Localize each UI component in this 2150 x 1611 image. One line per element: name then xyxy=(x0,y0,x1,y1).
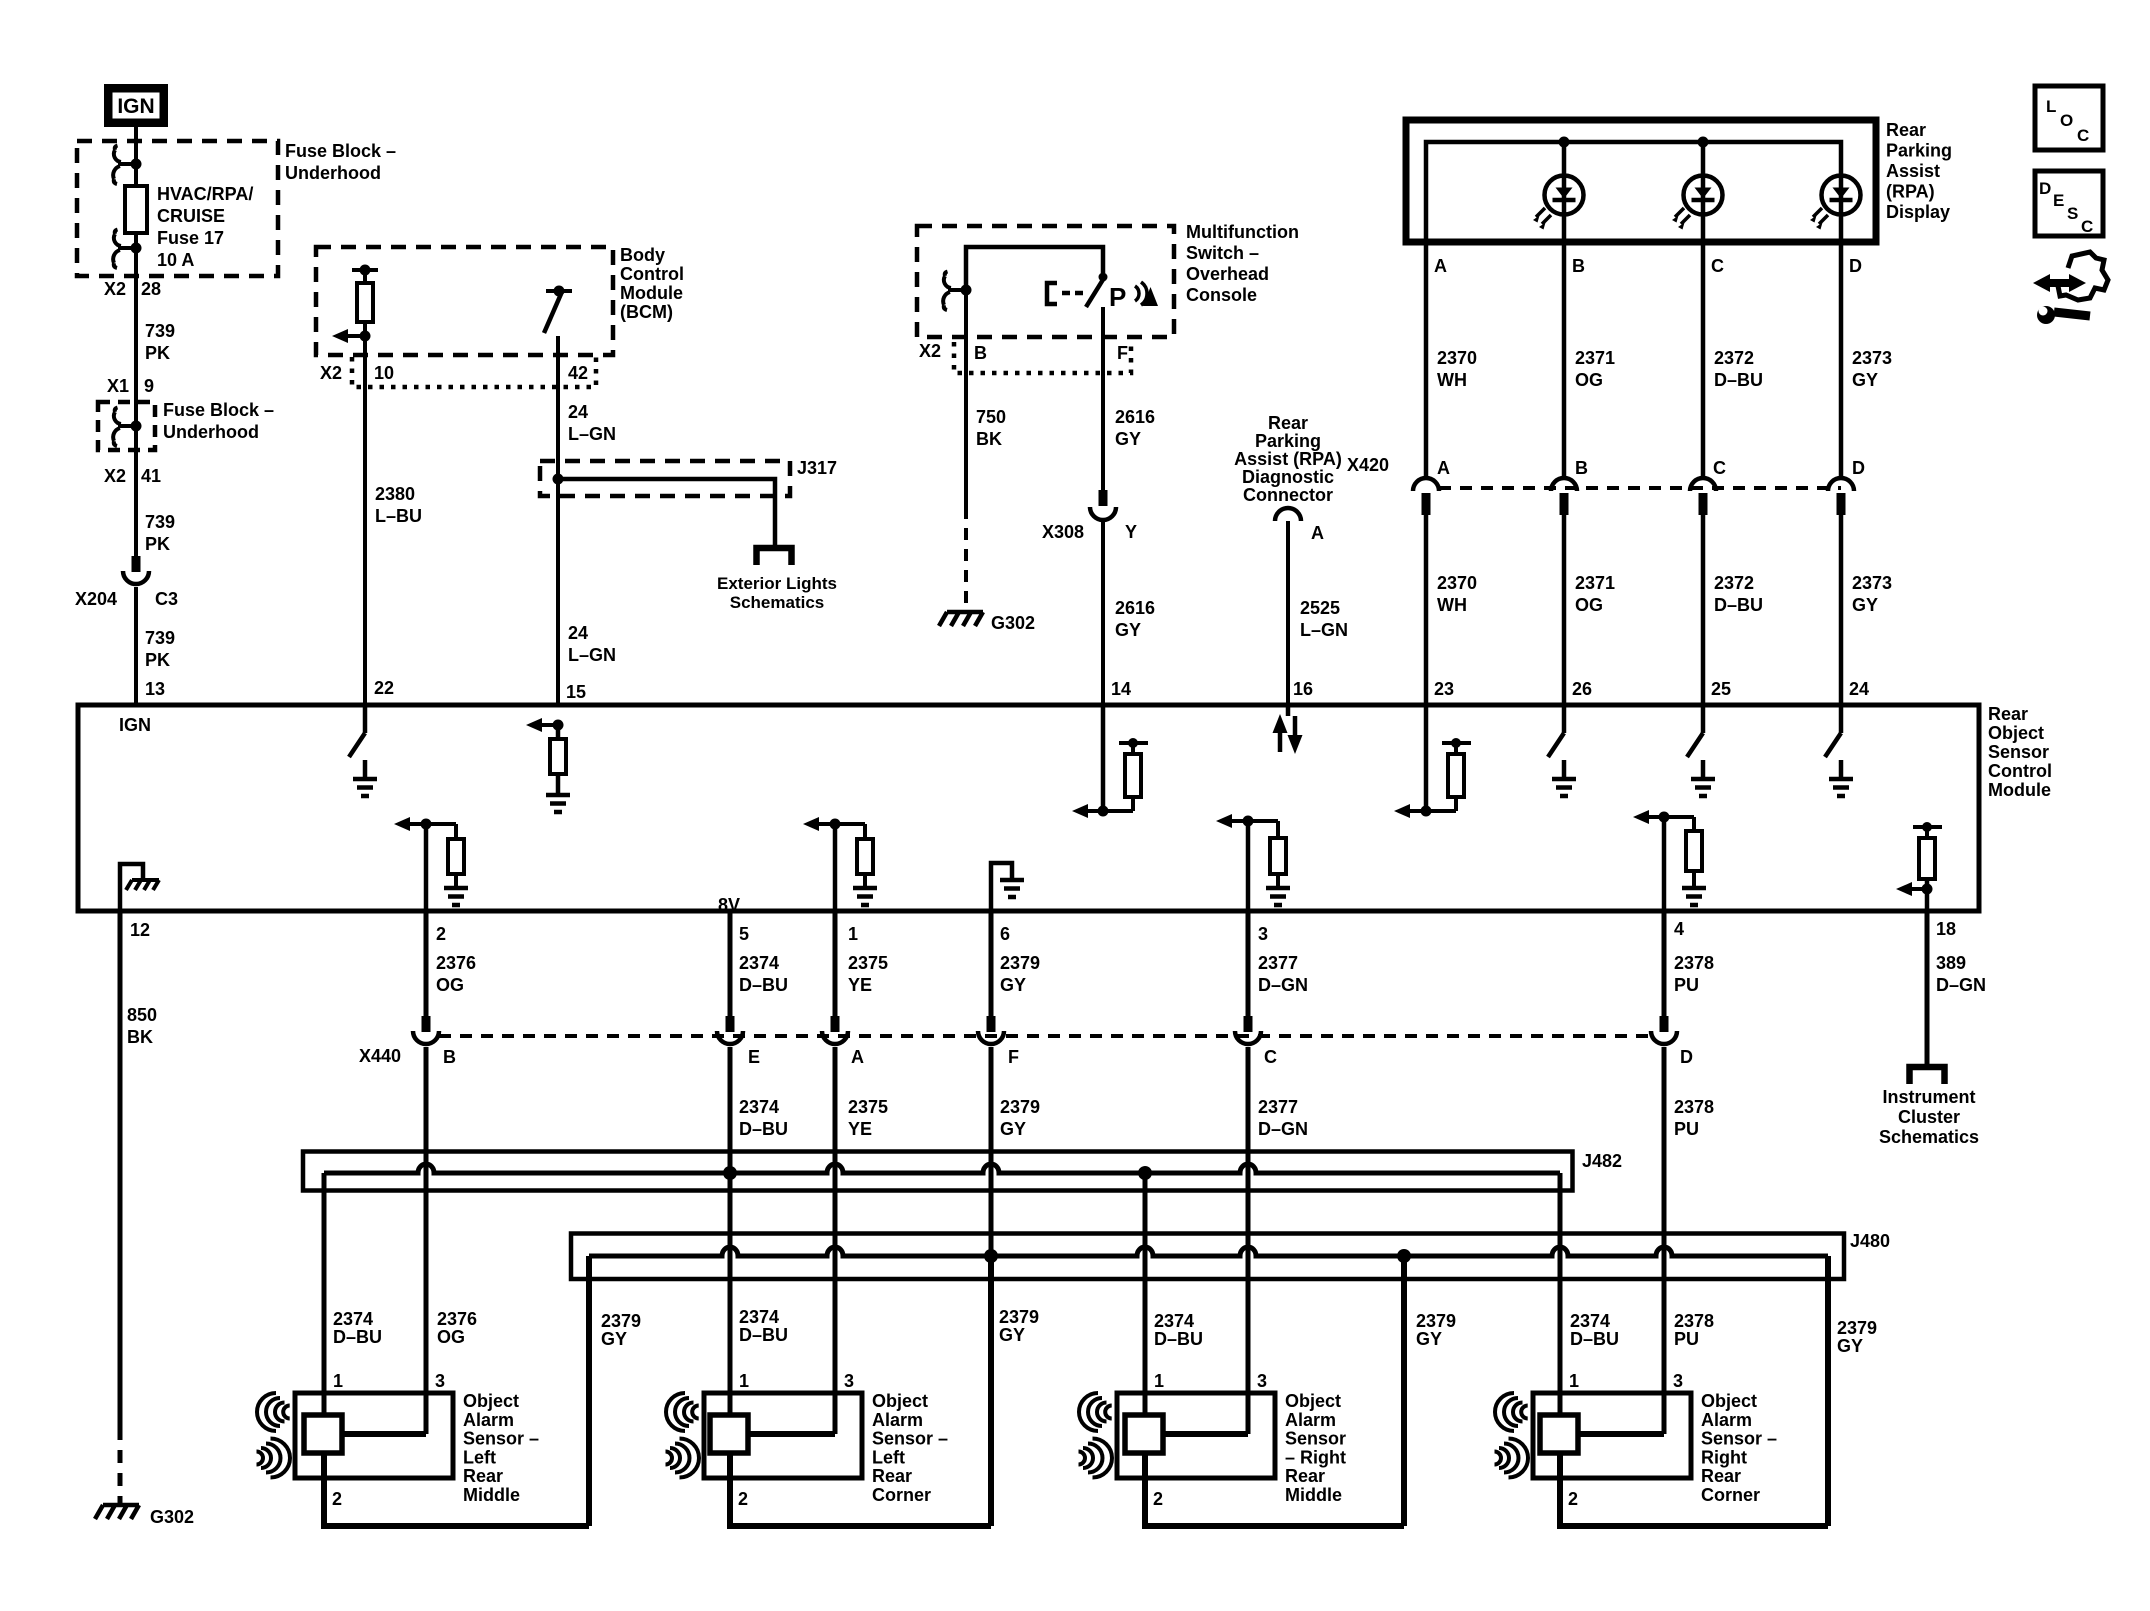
svg-text:1: 1 xyxy=(739,1371,749,1391)
contact hook lower xyxy=(113,230,136,269)
svg-text:Diagnostic: Diagnostic xyxy=(1242,467,1334,487)
svg-text:Switch –: Switch – xyxy=(1186,243,1259,263)
svg-text:2525: 2525 xyxy=(1300,598,1340,618)
svg-text:Underhood: Underhood xyxy=(285,163,381,183)
wire 2379 GY below J480 xyxy=(988,1256,994,1526)
wire J482 to sensor 1 pin 1 xyxy=(322,1173,327,1416)
sensor 4 sound waves lower xyxy=(1495,1439,1529,1478)
J480 bus wire xyxy=(589,1247,1828,1256)
svg-text:X440: X440 xyxy=(359,1046,401,1066)
module internal resistor arrow pin 2 xyxy=(394,817,410,831)
sensor 1 transducer square xyxy=(304,1415,342,1453)
svg-text:X2: X2 xyxy=(104,466,126,486)
wire pin 12 to G302 xyxy=(118,911,123,1427)
svg-text:23: 23 xyxy=(1434,679,1454,699)
svg-text:Parking: Parking xyxy=(1255,431,1321,451)
rear parking assist display box xyxy=(1406,120,1876,242)
svg-text:25: 25 xyxy=(1711,679,1731,699)
wire 2378 PU X440 to sensor 4 pin 3 xyxy=(1662,1047,1667,1434)
svg-text:Object: Object xyxy=(872,1391,928,1411)
svg-text:D: D xyxy=(1852,458,1865,478)
svg-text:Object: Object xyxy=(1988,723,2044,743)
svg-text:2373: 2373 xyxy=(1852,348,1892,368)
svg-text:Right: Right xyxy=(1701,1447,1747,1467)
svg-text:GY: GY xyxy=(1000,1119,1026,1139)
svg-text:2370: 2370 xyxy=(1437,348,1477,368)
svg-text:3: 3 xyxy=(435,1371,445,1391)
connector X420 A xyxy=(1413,478,1439,491)
svg-text:PU: PU xyxy=(1674,1329,1699,1349)
svg-text:Module: Module xyxy=(620,283,683,303)
contact hook fuse block 2 xyxy=(113,408,136,447)
BCM X2 connector dotted row xyxy=(352,357,596,387)
svg-text:2379: 2379 xyxy=(1837,1318,1877,1338)
module internal resistor arrow pin 23 xyxy=(1424,705,1429,811)
module internal ground pin 12 xyxy=(120,864,143,911)
connector X420 B xyxy=(1551,478,1577,491)
J480 junction dot 2379 wire xyxy=(984,1249,998,1263)
wire BCM pin 10 to module pin 22 xyxy=(363,336,367,705)
connector X420 C xyxy=(1690,478,1716,491)
svg-text:Fuse Block –: Fuse Block – xyxy=(285,141,396,161)
contact hook upper xyxy=(113,146,136,185)
svg-text:2376: 2376 xyxy=(436,953,476,973)
svg-text:GY: GY xyxy=(601,1329,627,1349)
svg-text:B: B xyxy=(974,343,987,363)
svg-text:Sensor –: Sensor – xyxy=(1701,1429,1777,1449)
svg-text:3: 3 xyxy=(1257,1371,1267,1391)
svg-text:D–BU: D–BU xyxy=(1154,1329,1203,1349)
svg-text:D–GN: D–GN xyxy=(1258,1119,1308,1139)
svg-text:6: 6 xyxy=(1000,924,1010,944)
svg-text:C: C xyxy=(1713,458,1726,478)
sensor 3 sound waves lower xyxy=(1079,1439,1113,1478)
icon arrows and wrench xyxy=(2033,252,2108,324)
icon DESC button xyxy=(2035,171,2103,236)
svg-text:2377: 2377 xyxy=(1258,1097,1298,1117)
svg-text:WH: WH xyxy=(1437,595,1467,615)
svg-text:Sensor –: Sensor – xyxy=(872,1429,948,1449)
svg-text:750: 750 xyxy=(976,407,1006,427)
svg-text:2371: 2371 xyxy=(1575,348,1615,368)
svg-text:CRUISE: CRUISE xyxy=(157,206,225,226)
svg-text:1: 1 xyxy=(333,1371,343,1391)
svg-text:OG: OG xyxy=(1575,595,1603,615)
wire F to X308 xyxy=(1101,307,1105,492)
svg-text:Control: Control xyxy=(620,264,684,284)
svg-text:2616: 2616 xyxy=(1115,598,1155,618)
connector X204 C3 xyxy=(123,556,149,584)
svg-text:L–GN: L–GN xyxy=(1300,620,1348,640)
svg-text:C: C xyxy=(1711,256,1724,276)
power symbol IGN xyxy=(104,84,168,127)
svg-text:2616: 2616 xyxy=(1115,407,1155,427)
wire J480 right to sensor 4 pin 2 riser xyxy=(1825,1256,1831,1526)
svg-text:739: 739 xyxy=(145,628,175,648)
svg-text:Fuse Block –: Fuse Block – xyxy=(163,400,274,420)
wire 2376 OG X440 to sensor 1 pin 3 xyxy=(424,1047,429,1434)
connector X420 D xyxy=(1828,478,1854,491)
display bus wire xyxy=(1426,142,1841,242)
svg-text:Rear: Rear xyxy=(1988,704,2028,724)
svg-text:Corner: Corner xyxy=(872,1485,931,1505)
LED indicator C xyxy=(1672,176,1723,230)
svg-text:2377: 2377 xyxy=(1258,953,1298,973)
svg-text:GY: GY xyxy=(1000,975,1026,995)
svg-text:Display: Display xyxy=(1886,202,1950,222)
svg-text:Connector: Connector xyxy=(1243,485,1333,505)
wires X420 to module xyxy=(1424,514,1429,705)
svg-text:2370: 2370 xyxy=(1437,573,1477,593)
svg-text:2372: 2372 xyxy=(1714,348,1754,368)
svg-text:3: 3 xyxy=(844,1371,854,1391)
svg-text:Body: Body xyxy=(620,245,665,265)
svg-text:10 A: 10 A xyxy=(157,250,194,270)
svg-text:D–BU: D–BU xyxy=(739,1325,788,1345)
wire 2375 YE X440 to sensor 2 pin 3 xyxy=(833,1047,838,1434)
svg-text:E: E xyxy=(748,1047,760,1067)
ground G302 top xyxy=(939,612,983,626)
svg-text:D–GN: D–GN xyxy=(1936,975,1986,995)
svg-text:F: F xyxy=(1117,343,1128,363)
svg-text:Multifunction: Multifunction xyxy=(1186,222,1299,242)
wire BCM pin 42 to J317 xyxy=(556,336,560,479)
svg-text:Middle: Middle xyxy=(1285,1485,1342,1505)
wires display to X420 xyxy=(1424,242,1429,479)
module internal switch pin 24 xyxy=(1839,705,1844,733)
wire fuse to X204 xyxy=(134,233,138,558)
wire B to ground xyxy=(964,290,968,507)
svg-text:2374: 2374 xyxy=(739,953,779,973)
wire X204 to module pin 13 xyxy=(134,587,138,705)
wire X308 to module pin 14 xyxy=(1101,521,1105,705)
connector X440 E xyxy=(726,1016,735,1032)
connector row X420 dashed xyxy=(1439,486,1841,490)
wire J480 left to sensor 1 pin 2 riser xyxy=(586,1256,592,1526)
sensor 1 sound waves upper xyxy=(257,1393,290,1431)
svg-text:Cluster: Cluster xyxy=(1898,1107,1960,1127)
svg-text:41: 41 xyxy=(141,466,161,486)
svg-text:3: 3 xyxy=(1673,1371,1683,1391)
svg-text:– Right: – Right xyxy=(1285,1447,1346,1467)
connector X440 F xyxy=(987,1016,996,1032)
svg-text:C: C xyxy=(1264,1047,1277,1067)
BCM resistor xyxy=(352,268,378,272)
sensor 2 internal link xyxy=(748,1431,835,1437)
junction block J482 box xyxy=(303,1152,1573,1191)
svg-text:C: C xyxy=(2077,126,2089,145)
J482 junction dot pin5 wire xyxy=(723,1166,737,1180)
sensor 3 transducer square xyxy=(1125,1415,1163,1453)
svg-text:BK: BK xyxy=(976,429,1002,449)
svg-text:D–BU: D–BU xyxy=(739,975,788,995)
sensor 1 sound waves lower xyxy=(257,1439,291,1478)
svg-text:16: 16 xyxy=(1293,679,1313,699)
wires module pins to X440 xyxy=(424,911,429,1017)
svg-text:X420: X420 xyxy=(1347,455,1389,475)
svg-text:S: S xyxy=(2067,204,2078,223)
sensor 2 sound waves upper xyxy=(666,1393,699,1431)
wire IGN to fuse xyxy=(134,127,138,188)
sensor 4 internal link xyxy=(1578,1431,1664,1437)
svg-text:WH: WH xyxy=(1437,370,1467,390)
svg-text:GY: GY xyxy=(1115,429,1141,449)
ground G302 bottom xyxy=(95,1505,139,1519)
wire 2374 D-BU X440 to sensor 2 pin 1 xyxy=(728,1047,733,1416)
icon LOC button xyxy=(2035,86,2103,150)
svg-text:Rear: Rear xyxy=(1701,1466,1741,1486)
svg-text:OG: OG xyxy=(436,975,464,995)
junction block J480 box xyxy=(571,1234,1844,1280)
module internal switch pin 26 xyxy=(1562,705,1567,733)
svg-text:GY: GY xyxy=(1852,370,1878,390)
svg-text:2: 2 xyxy=(332,1489,342,1509)
svg-text:Overhead: Overhead xyxy=(1186,264,1269,284)
svg-text:Fuse 17: Fuse 17 xyxy=(157,228,224,248)
svg-text:2374: 2374 xyxy=(333,1309,373,1329)
svg-text:1: 1 xyxy=(1569,1371,1579,1391)
module internal ground pin 6 xyxy=(991,863,1012,911)
svg-text:D–GN: D–GN xyxy=(1258,975,1308,995)
svg-text:X204: X204 xyxy=(75,589,117,609)
svg-text:2: 2 xyxy=(1568,1489,1578,1509)
multifunction X2 connector dotted row xyxy=(954,342,1131,373)
splice pack J317 dashed box xyxy=(540,461,790,496)
svg-text:(RPA): (RPA) xyxy=(1886,182,1935,202)
svg-text:18: 18 xyxy=(1936,919,1956,939)
wire 2377 D-GN X440 to sensor 3 pin 3 xyxy=(1246,1047,1251,1434)
svg-text:9: 9 xyxy=(144,376,154,396)
fuse F17 HVAC/RPA/CRUISE xyxy=(125,186,147,233)
svg-text:X2: X2 xyxy=(320,363,342,383)
svg-text:2374: 2374 xyxy=(739,1307,779,1327)
sensor 3 sound waves upper xyxy=(1079,1393,1112,1431)
svg-text:Middle: Middle xyxy=(463,1485,520,1505)
svg-text:2375: 2375 xyxy=(848,1097,888,1117)
svg-text:B: B xyxy=(1572,256,1585,276)
svg-text:2379: 2379 xyxy=(1000,953,1040,973)
svg-text:Left: Left xyxy=(463,1447,496,1467)
svg-text:D–BU: D–BU xyxy=(1714,595,1763,615)
svg-text:YE: YE xyxy=(848,975,872,995)
svg-text:C: C xyxy=(2081,217,2093,236)
svg-text:Schematics: Schematics xyxy=(730,593,825,612)
contact hook B xyxy=(943,272,966,311)
svg-text:G302: G302 xyxy=(991,613,1035,633)
svg-text:5: 5 xyxy=(739,924,749,944)
svg-text:Module: Module xyxy=(1988,780,2051,800)
svg-text:2376: 2376 xyxy=(437,1309,477,1329)
svg-text:GY: GY xyxy=(1852,595,1878,615)
svg-text:850: 850 xyxy=(127,1005,157,1025)
svg-text:O: O xyxy=(2060,111,2073,130)
svg-text:Schematics: Schematics xyxy=(1879,1127,1979,1147)
svg-text:C3: C3 xyxy=(155,589,178,609)
connector RPA diag A xyxy=(1275,508,1301,521)
svg-text:GY: GY xyxy=(999,1325,1025,1345)
svg-text:2: 2 xyxy=(436,924,446,944)
svg-text:2379: 2379 xyxy=(1416,1311,1456,1331)
svg-text:F: F xyxy=(1008,1047,1019,1067)
switch symbol E and P xyxy=(1047,283,1057,304)
wire RPA diag to module pin 16 xyxy=(1286,521,1290,705)
svg-text:Parking: Parking xyxy=(1886,141,1952,161)
svg-text:B: B xyxy=(443,1047,456,1067)
svg-text:L–GN: L–GN xyxy=(568,645,616,665)
svg-text:D–BU: D–BU xyxy=(333,1327,382,1347)
wire J480 to sensor 3 pin 2 riser xyxy=(1401,1256,1407,1526)
module internal resistor pin 15 xyxy=(553,720,564,731)
svg-text:24: 24 xyxy=(1849,679,1869,699)
module internal switch pin 25 xyxy=(1701,705,1706,733)
svg-text:A: A xyxy=(1311,523,1324,543)
svg-text:OG: OG xyxy=(437,1327,465,1347)
module internal resistor arrow pin 14 xyxy=(1101,705,1106,811)
module internal resistor pin 18 xyxy=(1913,825,1942,829)
wire J482 to sensor 3 pin 1 xyxy=(1143,1173,1148,1416)
body control module dashed box xyxy=(316,247,613,355)
switch internal frame xyxy=(966,247,1103,290)
fuse block underhood dashed box 1 xyxy=(77,141,278,276)
J482 junction dot sensor3 wire xyxy=(1138,1166,1152,1180)
sensor 1 pin 2 wire xyxy=(321,1453,327,1526)
connector X440 A xyxy=(831,1016,840,1032)
wire pin 18 to instrument cluster xyxy=(1925,911,1930,1066)
display wire B xyxy=(1562,142,1567,242)
sensor 4 sound waves upper xyxy=(1495,1393,1528,1431)
svg-text:D–BU: D–BU xyxy=(1570,1329,1619,1349)
LED indicator D xyxy=(1810,176,1861,230)
svg-text:Left: Left xyxy=(872,1447,905,1467)
module internal resistor arrow pin 4 xyxy=(1633,810,1649,824)
svg-text:2373: 2373 xyxy=(1852,573,1892,593)
svg-text:Underhood: Underhood xyxy=(163,422,259,442)
connector X308 Y xyxy=(1090,490,1116,520)
svg-text:12: 12 xyxy=(130,920,150,940)
svg-text:Rear: Rear xyxy=(1285,1466,1325,1486)
svg-text:Rear: Rear xyxy=(872,1466,912,1486)
J480 junction dot sensor3 pin2 wire xyxy=(1397,1249,1411,1263)
svg-text:Sensor: Sensor xyxy=(1988,742,2049,762)
connector X440 C xyxy=(1244,1016,1253,1032)
svg-text:E: E xyxy=(2053,191,2064,210)
rear object sensor control module box xyxy=(78,705,1979,911)
switch blade F xyxy=(1086,278,1104,307)
svg-text:PU: PU xyxy=(1674,1119,1699,1139)
svg-text:(BCM): (BCM) xyxy=(620,302,673,322)
svg-text:2374: 2374 xyxy=(1154,1311,1194,1331)
svg-text:2: 2 xyxy=(738,1489,748,1509)
svg-text:Object: Object xyxy=(1701,1391,1757,1411)
svg-text:HVAC/RPA/: HVAC/RPA/ xyxy=(157,184,253,204)
object alarm sensor 4 box xyxy=(1533,1393,1691,1478)
svg-text:D–BU: D–BU xyxy=(1714,370,1763,390)
svg-text:24: 24 xyxy=(568,402,588,422)
svg-text:739: 739 xyxy=(145,512,175,532)
svg-text:2378: 2378 xyxy=(1674,1097,1714,1117)
svg-text:4: 4 xyxy=(1674,919,1684,939)
svg-text:1: 1 xyxy=(848,924,858,944)
svg-text:YE: YE xyxy=(848,1119,872,1139)
wire J317 to module pin 15 xyxy=(556,479,560,705)
wire 2379 GY X440 to J480 xyxy=(989,1047,994,1256)
svg-text:Rear: Rear xyxy=(1886,120,1926,140)
svg-text:A: A xyxy=(1434,256,1447,276)
svg-text:X1: X1 xyxy=(107,376,129,396)
svg-text:Object: Object xyxy=(463,1391,519,1411)
svg-text:1: 1 xyxy=(1154,1371,1164,1391)
multifunction switch dashed box xyxy=(917,226,1174,337)
svg-text:Object: Object xyxy=(1285,1391,1341,1411)
svg-text:X308: X308 xyxy=(1042,522,1084,542)
svg-text:PK: PK xyxy=(145,343,170,363)
svg-text:IGN: IGN xyxy=(119,715,151,735)
sensor 3 internal link xyxy=(1163,1431,1248,1437)
svg-text:2: 2 xyxy=(1153,1489,1163,1509)
svg-text:Control: Control xyxy=(1988,761,2052,781)
svg-text:OG: OG xyxy=(1575,370,1603,390)
svg-text:2374: 2374 xyxy=(739,1097,779,1117)
svg-text:389: 389 xyxy=(1936,953,1966,973)
svg-text:26: 26 xyxy=(1572,679,1592,699)
svg-text:Alarm: Alarm xyxy=(872,1410,923,1430)
fuse block underhood dashed box 2 xyxy=(98,402,155,450)
svg-text:GY: GY xyxy=(1837,1336,1863,1356)
svg-text:Alarm: Alarm xyxy=(463,1410,514,1430)
connector X440 B xyxy=(422,1016,431,1032)
svg-text:PK: PK xyxy=(145,534,170,554)
sensor 2 sound waves lower xyxy=(666,1439,700,1478)
svg-text:Y: Y xyxy=(1125,522,1137,542)
wire J482 to sensor 4 pin 1 xyxy=(1558,1173,1563,1416)
svg-text:Sensor: Sensor xyxy=(1285,1429,1346,1449)
sensor 2 transducer square xyxy=(710,1415,748,1453)
svg-text:X2: X2 xyxy=(919,341,941,361)
object alarm sensor 1 box xyxy=(295,1393,453,1478)
svg-text:Alarm: Alarm xyxy=(1285,1410,1336,1430)
svg-text:Corner: Corner xyxy=(1701,1485,1760,1505)
svg-text:L–GN: L–GN xyxy=(568,424,616,444)
svg-text:D–BU: D–BU xyxy=(739,1119,788,1139)
display wire C xyxy=(1701,142,1706,242)
goes-to bracket instrument cluster xyxy=(1910,1067,1945,1084)
svg-text:2372: 2372 xyxy=(1714,573,1754,593)
sensor 3 pin 2 wire xyxy=(1142,1453,1148,1526)
svg-text:L: L xyxy=(2046,97,2056,116)
svg-text:J317: J317 xyxy=(797,458,837,478)
svg-text:IGN: IGN xyxy=(117,95,154,118)
svg-text:D: D xyxy=(2039,179,2051,198)
svg-text:Alarm: Alarm xyxy=(1701,1410,1752,1430)
svg-text:Exterior Lights: Exterior Lights xyxy=(717,574,837,593)
svg-text:28: 28 xyxy=(141,279,161,299)
svg-text:BK: BK xyxy=(127,1027,153,1047)
svg-text:A: A xyxy=(851,1047,864,1067)
svg-text:B: B xyxy=(1575,458,1588,478)
svg-text:Assist: Assist xyxy=(1886,161,1940,181)
svg-text:J480: J480 xyxy=(1850,1231,1890,1251)
svg-text:3: 3 xyxy=(1258,924,1268,944)
sensor 4 pin 2 wire xyxy=(1557,1453,1563,1526)
svg-text:J482: J482 xyxy=(1582,1151,1622,1171)
svg-text:D: D xyxy=(1680,1047,1693,1067)
svg-text:Rear: Rear xyxy=(1268,413,1308,433)
svg-text:GY: GY xyxy=(1115,620,1141,640)
LED indicator B xyxy=(1533,176,1584,230)
svg-text:G302: G302 xyxy=(150,1507,194,1527)
svg-text:2378: 2378 xyxy=(1674,1311,1714,1331)
svg-text:24: 24 xyxy=(568,623,588,643)
